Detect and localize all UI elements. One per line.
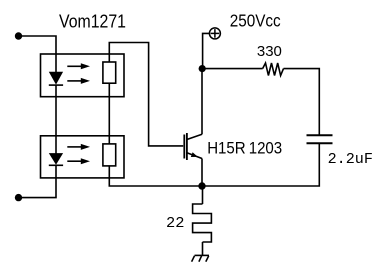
light arrow 1b xyxy=(67,78,90,84)
optocoupler U1 channel-1 box xyxy=(41,54,125,97)
wire capacitor bottom to emitter rail xyxy=(202,143,319,186)
wire top-left terminal to LED D1 anode xyxy=(19,36,57,73)
resistor R4 22 meander xyxy=(193,204,212,242)
wire D1 cathode to D2 anode xyxy=(55,85,57,153)
svg-text:H15R 1203: H15R 1203 xyxy=(207,140,282,158)
wire node A to resistor 330 xyxy=(202,68,262,70)
supply terminal 250Vcc (circle with plus) xyxy=(209,28,220,39)
IGBT Q1 H15R1203 xyxy=(184,133,202,160)
wire node B to resistor 22 xyxy=(202,186,204,204)
capacitor C1 bottom plate xyxy=(307,142,333,144)
wire R1 bottom to R2 top xyxy=(108,83,110,144)
LED D1 xyxy=(49,72,63,85)
svg-text:250Vcc: 250Vcc xyxy=(230,11,281,31)
resistor R1 (in U1 channel 1) xyxy=(103,62,116,83)
light arrow 2b xyxy=(67,158,90,164)
light arrow 2a xyxy=(67,144,90,150)
LED D2 xyxy=(49,153,63,165)
wire 330 to capacitor top xyxy=(284,69,320,136)
wire emitter down to node B xyxy=(201,159,203,187)
resistor R3 330 zigzag xyxy=(263,63,284,76)
svg-text:22: 22 xyxy=(166,216,185,232)
wire R1 top to IGBT gate xyxy=(109,43,183,146)
capacitor C1 top plate xyxy=(307,134,333,136)
wire R2 bottom to emitter rail xyxy=(109,166,202,186)
wire collector to node A xyxy=(201,69,203,135)
svg-text:330: 330 xyxy=(257,43,282,60)
wire supply to collector junction xyxy=(203,33,210,68)
junction node A (collector / 330) xyxy=(199,65,206,72)
light arrow 1a xyxy=(67,63,90,69)
ground symbol xyxy=(192,255,209,261)
wire 22 to ground xyxy=(202,242,204,255)
svg-text:2.2uF: 2.2uF xyxy=(328,151,373,168)
junction node B (emitter rail) xyxy=(198,182,205,189)
optocoupler U1 channel-2 box xyxy=(41,136,125,178)
wire D2 cathode to bottom-left terminal xyxy=(19,165,57,197)
svg-text:Vom1271: Vom1271 xyxy=(59,12,126,32)
terminal dot bottom-left input xyxy=(15,194,22,201)
resistor R2 (in U1 channel 2) xyxy=(103,144,116,166)
terminal dot top-left input xyxy=(15,32,22,39)
